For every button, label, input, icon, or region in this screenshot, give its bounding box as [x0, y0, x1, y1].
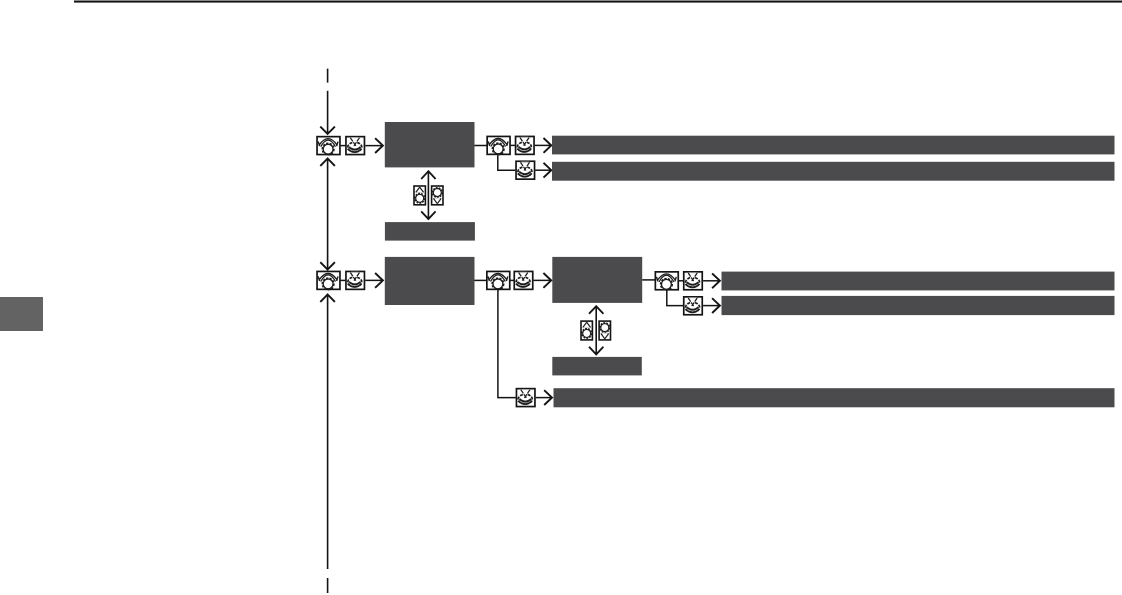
arrowhead right into box1 — [375, 138, 383, 153]
icon press knob row2-right — [684, 272, 703, 290]
arrowhead right into bar4 — [712, 298, 720, 313]
wire: arrow row2-right to bar3 — [703, 280, 719, 282]
menu small bar1 — [385, 222, 475, 241]
arrowhead right into bar2 — [544, 163, 552, 178]
wire: arrow row1-mid to bar1 — [535, 144, 550, 146]
icon press knob row1-mid — [516, 136, 535, 154]
wire: main vertical segment into row 1 — [327, 91, 329, 134]
wire: branch from row1-mid rotate down to press3 — [498, 155, 516, 170]
menu bar5 — [554, 388, 1115, 407]
wire: updown arrow 2 vertical — [595, 306, 597, 354]
wire: gap link row2-right icons — [679, 280, 683, 282]
arrowhead right into bar5 — [544, 390, 552, 405]
arrowhead up below box1 — [421, 171, 435, 179]
menu bar1 — [552, 136, 1115, 155]
icon press knob row2-mid — [514, 271, 533, 289]
wire: main vertical segment below row 2 — [327, 295, 329, 570]
wire: gap link row1-mid icons — [511, 144, 515, 146]
wire: arrow row2-mid to box3 — [534, 279, 551, 281]
icon press knob row1-sub — [516, 161, 535, 179]
arrowhead right into box3 — [543, 273, 551, 288]
wire: box3 to row2-right rotate icon — [642, 279, 655, 281]
arrowhead up below row 1 icon — [320, 159, 335, 166]
icon rotate up pair1 — [414, 186, 425, 205]
wire: arrow row1-sub to bar2 — [535, 169, 550, 171]
icon rotate down pair1 — [432, 186, 443, 205]
wire: gap link row2-mid icons — [510, 279, 513, 281]
icon rotate knob row2-right — [655, 272, 678, 290]
arrowhead up below box3 — [589, 306, 603, 314]
arrowhead up below row 2 icon — [320, 295, 335, 302]
icon rotate knob row2-left — [317, 271, 340, 289]
icon press knob row2-left — [346, 271, 365, 289]
menu small bar2 — [552, 357, 642, 376]
wire: main vertical dashed stub top — [327, 69, 329, 83]
menu box2 — [385, 257, 475, 305]
wire: main vertical segment row1 to row2 — [327, 159, 329, 270]
wire: arrow row2-sub-bottom to bar5 — [536, 397, 551, 399]
wire: gap link row1-left icons — [341, 145, 346, 147]
page edge tab (left grey box) — [0, 297, 43, 331]
arrowhead down into small bar1 — [421, 211, 435, 219]
wire: updown arrow 1 vertical — [427, 171, 429, 219]
icon rotate knob row2-mid — [487, 271, 510, 289]
wire: branch from row2-mid rotate down to press5 — [498, 290, 516, 397]
icon press knob row2-sub-right — [684, 297, 703, 315]
menu bar2 — [552, 162, 1115, 181]
wire: arrow row1-left to box1 — [365, 145, 382, 147]
wire: main vertical dashed stub bottom — [327, 578, 329, 593]
icon press knob row1-left — [346, 137, 365, 155]
icon press knob row2-sub-bottom — [516, 389, 535, 407]
wire: arrow row2-sub-right to bar4 — [703, 305, 719, 307]
wire: arrow row2-left to box2 — [365, 279, 382, 281]
wire: gap link row2-left icons — [341, 279, 346, 281]
icon rotate up pair2 — [581, 321, 592, 340]
icon rotate knob row1-mid — [487, 136, 510, 154]
arrowhead down into small bar2 — [589, 347, 603, 355]
arrowhead right into bar3 — [712, 273, 720, 288]
menu box3 — [552, 257, 642, 303]
arrowhead right into bar1 — [544, 138, 552, 153]
page top rule — [74, 1, 1122, 3]
arrowhead right into box2 — [375, 273, 383, 288]
wire: box2 to row2-mid rotate icon — [475, 279, 487, 281]
menu box1 — [385, 122, 475, 167]
wire: branch from row2-right rotate down to press4 — [667, 290, 683, 305]
arrowhead down into row 1 icon — [320, 127, 335, 134]
menu bar3 — [722, 272, 1115, 291]
wire: box1 to row1-mid rotate icon — [475, 145, 487, 147]
icon rotate down pair2 — [599, 321, 610, 340]
arrowhead down into row 2 icon — [320, 262, 335, 269]
menu bar4 — [722, 296, 1115, 315]
icon rotate knob row1-left — [317, 137, 340, 155]
